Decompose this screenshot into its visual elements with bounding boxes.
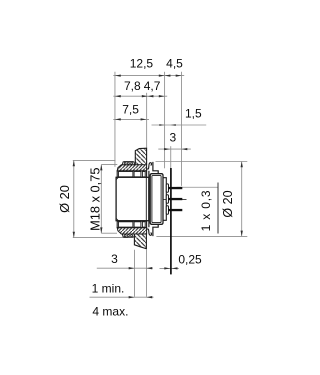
- solder pin 2: [168, 198, 182, 200]
- dim line 3 bottom: [97, 267, 153, 269]
- dim line 0,25: [160, 267, 179, 269]
- svg-text:4 max.: 4 max.: [92, 304, 128, 318]
- ext line rear face x164.6: [164, 72, 166, 169]
- arrowheads: [73, 74, 243, 298]
- svg-text:4,7: 4,7: [144, 79, 161, 93]
- svg-text:7,8: 7,8: [124, 79, 141, 93]
- flange rim top: [153, 162, 158, 174]
- barrel joint line right: [145, 177, 147, 220]
- svg-text:Ø 20: Ø 20: [221, 190, 235, 217]
- ext line front face x115: [114, 72, 116, 167]
- ext line bottom panel right: [145, 250, 147, 297]
- solder pin 3: [168, 209, 182, 211]
- svg-text:3: 3: [111, 252, 118, 266]
- dim line 12,5 / 4,5: [113, 75, 184, 77]
- solder pin 1: [168, 187, 182, 189]
- flange plate edge: [148, 171, 150, 227]
- dia20 left top ext: [73, 159, 116, 161]
- barrel chamfer top-left: [116, 177, 119, 180]
- arrows 7,5: [115, 118, 121, 120]
- dim line 7,5: [113, 118, 149, 120]
- dia20 left bottom ext: [73, 237, 128, 239]
- arrows 1min/4max: [129, 296, 135, 298]
- dia20 left dim line: [73, 160, 75, 237]
- fraction bar 1min/4max: [90, 296, 154, 298]
- barrel chamfer bottom-left: [116, 218, 119, 221]
- thread band top (hatched): [117, 165, 146, 171]
- svg-text:1 x 0,3: 1 x 0,3: [199, 190, 213, 232]
- arrows dia20 left: [73, 160, 75, 166]
- svg-text:M18 x 0,75: M18 x 0,75: [88, 168, 103, 231]
- leader 1x0,3: [177, 186, 219, 188]
- svg-text:1 min.: 1 min.: [92, 282, 125, 296]
- panel bottom section (hatched): [134, 234, 146, 249]
- ext line pin tips x181.5: [181, 72, 183, 186]
- carrier bumps: [166, 184, 168, 214]
- arrows dia20 right: [241, 162, 243, 168]
- washer curl bottom: [147, 229, 152, 235]
- svg-text:Ø 20: Ø 20: [57, 185, 72, 213]
- flange rim bottom: [153, 224, 158, 236]
- arrows 3 top: [164, 148, 170, 150]
- thread band bottom (hatched): [117, 228, 146, 234]
- dim line 7,8 / 4,7: [113, 95, 167, 97]
- svg-text:3: 3: [169, 131, 176, 145]
- M18 dim line: [100, 165, 102, 234]
- arrows M18: [100, 165, 102, 171]
- nut band top facet boxes: [119, 172, 146, 177]
- knurl ticks top: [124, 162, 132, 164]
- dim line 3 top: [158, 148, 191, 150]
- insulator block: [150, 174, 163, 225]
- dia20 right bottom ext: [156, 235, 247, 237]
- washer curl top: [147, 163, 152, 169]
- svg-text:4,5: 4,5: [166, 56, 183, 70]
- knurl ticks bottom: [124, 235, 132, 237]
- M18 top ext: [101, 164, 117, 166]
- ext line bottom panel left: [133, 250, 135, 297]
- arrows 0,25: [164, 267, 170, 269]
- svg-text:7,5: 7,5: [122, 102, 139, 116]
- dia20 right top ext: [156, 161, 248, 163]
- ext line panel right top: [146, 93, 148, 148]
- dim line 1,5: [152, 124, 207, 126]
- svg-text:1,5: 1,5: [185, 106, 202, 120]
- nut band bottom: [117, 221, 146, 227]
- svg-text:0,25: 0,25: [178, 253, 202, 267]
- dia20 right dim line: [241, 162, 243, 237]
- arrows 12,5 / 4,5: [115, 74, 121, 76]
- underline for 1x0,3: [217, 183, 219, 234]
- solder lug edge 0,25 (thick): [170, 168, 172, 274]
- arrows 1,5: [159, 124, 164, 126]
- knurl ridge bottom: [122, 234, 134, 237]
- contact carrier: [163, 178, 166, 221]
- svg-text:12,5: 12,5: [130, 56, 154, 70]
- centerline: [116, 198, 186, 200]
- ext line lug x170.75 upper: [170, 146, 172, 168]
- arrows 3 bottom: [129, 267, 135, 269]
- arrows 7,8 / 4,7: [115, 95, 121, 97]
- knurl ridge top: [122, 162, 134, 165]
- nut band top: [117, 171, 146, 177]
- insulator inner contour: [152, 175, 161, 222]
- nut band bottom facet boxes: [119, 222, 146, 227]
- panel top section (hatched): [135, 148, 146, 165]
- M18 bottom ext: [101, 232, 117, 234]
- barrel body: [116, 177, 149, 220]
